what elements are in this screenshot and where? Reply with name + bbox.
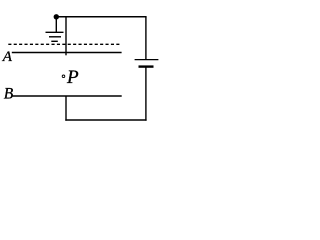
- dashed reference line: [8, 43, 120, 45]
- battery negative plate (short): [139, 65, 154, 67]
- wire battery bottom lead: [145, 67, 147, 121]
- node junction dot: [54, 14, 59, 19]
- ground: [46, 17, 64, 42]
- svg-text:P: P: [66, 67, 79, 88]
- point P marker: [62, 75, 65, 78]
- wire vertical to plate A: [65, 16, 67, 55]
- battery positive plate (long): [135, 59, 159, 61]
- plate A: [12, 52, 122, 54]
- wire vertical from plate B: [65, 96, 67, 121]
- wire battery top lead: [145, 17, 147, 60]
- svg-text:A: A: [2, 49, 13, 65]
- plate B: [12, 95, 121, 97]
- svg-text:B: B: [4, 85, 14, 102]
- wire top (junction to battery): [56, 16, 147, 18]
- wire bottom: [65, 119, 146, 121]
